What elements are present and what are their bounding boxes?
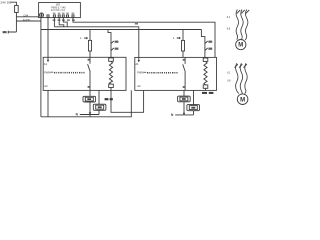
wire CH4 to controller xyxy=(16,16,38,18)
contact auxiliary marks channel 2 xyxy=(205,41,208,51)
sensor module upper channel 1 xyxy=(83,96,96,102)
wire pin3 to bus start xyxy=(53,18,55,27)
wire resistor bottom down to 0V node xyxy=(15,13,17,33)
svg-text:L: L xyxy=(80,36,82,40)
coil K1 channel 1 xyxy=(109,58,114,91)
sensor mark upper channel 2 xyxy=(182,98,186,100)
svg-text:6.8: 6.8 xyxy=(227,79,231,82)
wire contact output to sensor channel 2 xyxy=(183,90,185,96)
wire middle pin to lower module channel 1 xyxy=(98,90,100,104)
wire pin1 long vertical to bottom rail xyxy=(40,17,42,117)
svg-text:A1: A1 xyxy=(135,62,139,66)
motor M1 xyxy=(236,40,246,50)
svg-text:CH4: CH4 xyxy=(23,13,29,17)
wire bottom 0V rail xyxy=(41,90,131,116)
node A1 label channel 2 xyxy=(135,62,139,66)
wire L supply bus xyxy=(41,29,202,31)
motor M2 xyxy=(237,94,248,105)
node CH4 label xyxy=(23,13,29,17)
labels auxiliary contact channel 2 xyxy=(208,41,212,50)
controller U1 title text xyxy=(51,4,66,12)
wire L arrow channel 1 xyxy=(84,37,88,39)
contact K2 main contact channel 2 xyxy=(183,57,186,90)
wire pin4 stair to bus xyxy=(59,18,64,27)
svg-text:A2: A2 xyxy=(137,84,141,88)
channel 2 PWM text xyxy=(137,72,177,75)
node A1 label channel 1 xyxy=(44,62,48,66)
label under box channel 2 xyxy=(202,92,213,94)
svg-text:N: N xyxy=(171,113,174,117)
label HY 60 channel 1 xyxy=(105,98,113,100)
labels auxiliary contact channel 1 xyxy=(115,41,119,50)
node arrow into A1 channel 1 xyxy=(47,60,49,62)
sensor module upper channel 2 xyxy=(178,96,191,102)
labels motor M1 leads xyxy=(227,16,231,31)
sensor module lower channel 1 xyxy=(93,104,106,110)
wire signal bus to channel 2 A1 xyxy=(54,27,138,60)
sensor mark lower channel 1 xyxy=(98,106,102,108)
svg-text:AGND: AGND xyxy=(23,18,31,22)
node 0V label xyxy=(3,31,7,33)
wire contact output to sensor channel 1 xyxy=(89,90,91,96)
wire AGND to controller xyxy=(16,20,41,22)
ground 0V terminal xyxy=(8,31,16,34)
node A2 label channel 1 xyxy=(44,84,48,88)
resistor R1 xyxy=(15,6,19,13)
svg-text:M: M xyxy=(240,97,245,103)
coil K2 channel 2 xyxy=(203,58,208,90)
cable hatch marks M2 xyxy=(235,64,247,67)
wire coil drop with jog channel 1 xyxy=(108,30,111,58)
wire pin5 stair to bus xyxy=(63,18,67,27)
cable hatch marks M1 xyxy=(237,10,249,13)
svg-text:PWM: PWM xyxy=(137,72,143,75)
wire lower module to N channel 2 xyxy=(193,111,195,115)
sensor mark upper channel 1 xyxy=(87,98,91,100)
svg-text:24 V DC / 6 A: 24 V DC / 6 A xyxy=(51,9,65,12)
contact K1 main contact channel 1 xyxy=(88,57,91,90)
fuse F1 channel 1 xyxy=(89,30,92,58)
svg-text:N: N xyxy=(76,113,79,117)
motor cable M1 wavy conductors xyxy=(236,10,248,41)
channel 2 PWM driver box xyxy=(135,57,217,90)
wire N channel 2 xyxy=(175,114,193,116)
sensor mark lower channel 2 xyxy=(191,107,195,109)
node AGND label xyxy=(23,18,31,22)
junction dot channel 1 xyxy=(89,112,91,115)
svg-text:6.8: 6.8 xyxy=(227,28,231,31)
labels motor M2 leads xyxy=(227,71,231,82)
fuse F2 channel 2 xyxy=(182,30,185,58)
svg-text:M: M xyxy=(238,43,243,49)
motor cable M2 wavy conductors xyxy=(236,63,248,93)
wire from 24V DC to resistor R1 xyxy=(10,2,16,5)
svg-text:6.1: 6.1 xyxy=(227,16,231,19)
svg-text:A2: A2 xyxy=(44,84,48,88)
wire coil drop with jog channel 2 xyxy=(201,30,205,58)
pin labels contact K2 xyxy=(183,59,185,88)
node A2 label channel 2 xyxy=(137,84,141,88)
node L label channel 1 xyxy=(80,36,82,40)
label on long wire xyxy=(135,23,138,25)
node 24V DC supply label xyxy=(0,1,12,5)
wire L arrow channel 2 xyxy=(177,37,181,39)
svg-text:L: L xyxy=(173,36,175,40)
svg-text:6.1: 6.1 xyxy=(227,71,231,74)
channel 1 PWM driver box xyxy=(43,57,126,90)
svg-text:PWM: PWM xyxy=(44,72,50,75)
channel 1 PWM text xyxy=(44,72,84,75)
controller U1 box xyxy=(39,3,81,18)
pin 1 power terminal circle-plus xyxy=(39,13,43,17)
contact auxiliary marks channel 1 xyxy=(111,41,114,51)
pin terminal marks on controller bottom xyxy=(47,15,74,17)
wire sensor to N channel 1 xyxy=(89,102,91,115)
wire N channel 1 xyxy=(80,114,99,116)
svg-text:A1: A1 xyxy=(44,62,48,66)
wire junction to bottom rail channel 1 xyxy=(89,115,91,117)
wire middle pin to lower module channel 2 xyxy=(193,90,195,104)
node arrow into A1 channel 2 xyxy=(138,60,140,62)
pin labels under controller xyxy=(53,13,74,14)
wire A2 channel 1 to bottom rail xyxy=(47,90,49,116)
sensor module lower channel 2 xyxy=(187,105,200,111)
node N label channel 2 xyxy=(171,113,174,117)
node L label channel 2 xyxy=(173,36,175,40)
node N label channel 1 xyxy=(76,113,79,117)
pin labels contact K1 xyxy=(88,59,90,88)
wire lower module to N channel 1 xyxy=(98,110,100,114)
wire pin2 PWM output to channel 1 A1 xyxy=(47,18,49,60)
wire pin6 long run to channel 2 top right xyxy=(73,18,215,58)
wire number labels below controller xyxy=(53,19,75,21)
junction dot channel 2 xyxy=(183,113,185,116)
wire coil return channel 1 to channel 2 xyxy=(111,90,144,112)
wire sensor to N channel 2 xyxy=(183,102,185,115)
